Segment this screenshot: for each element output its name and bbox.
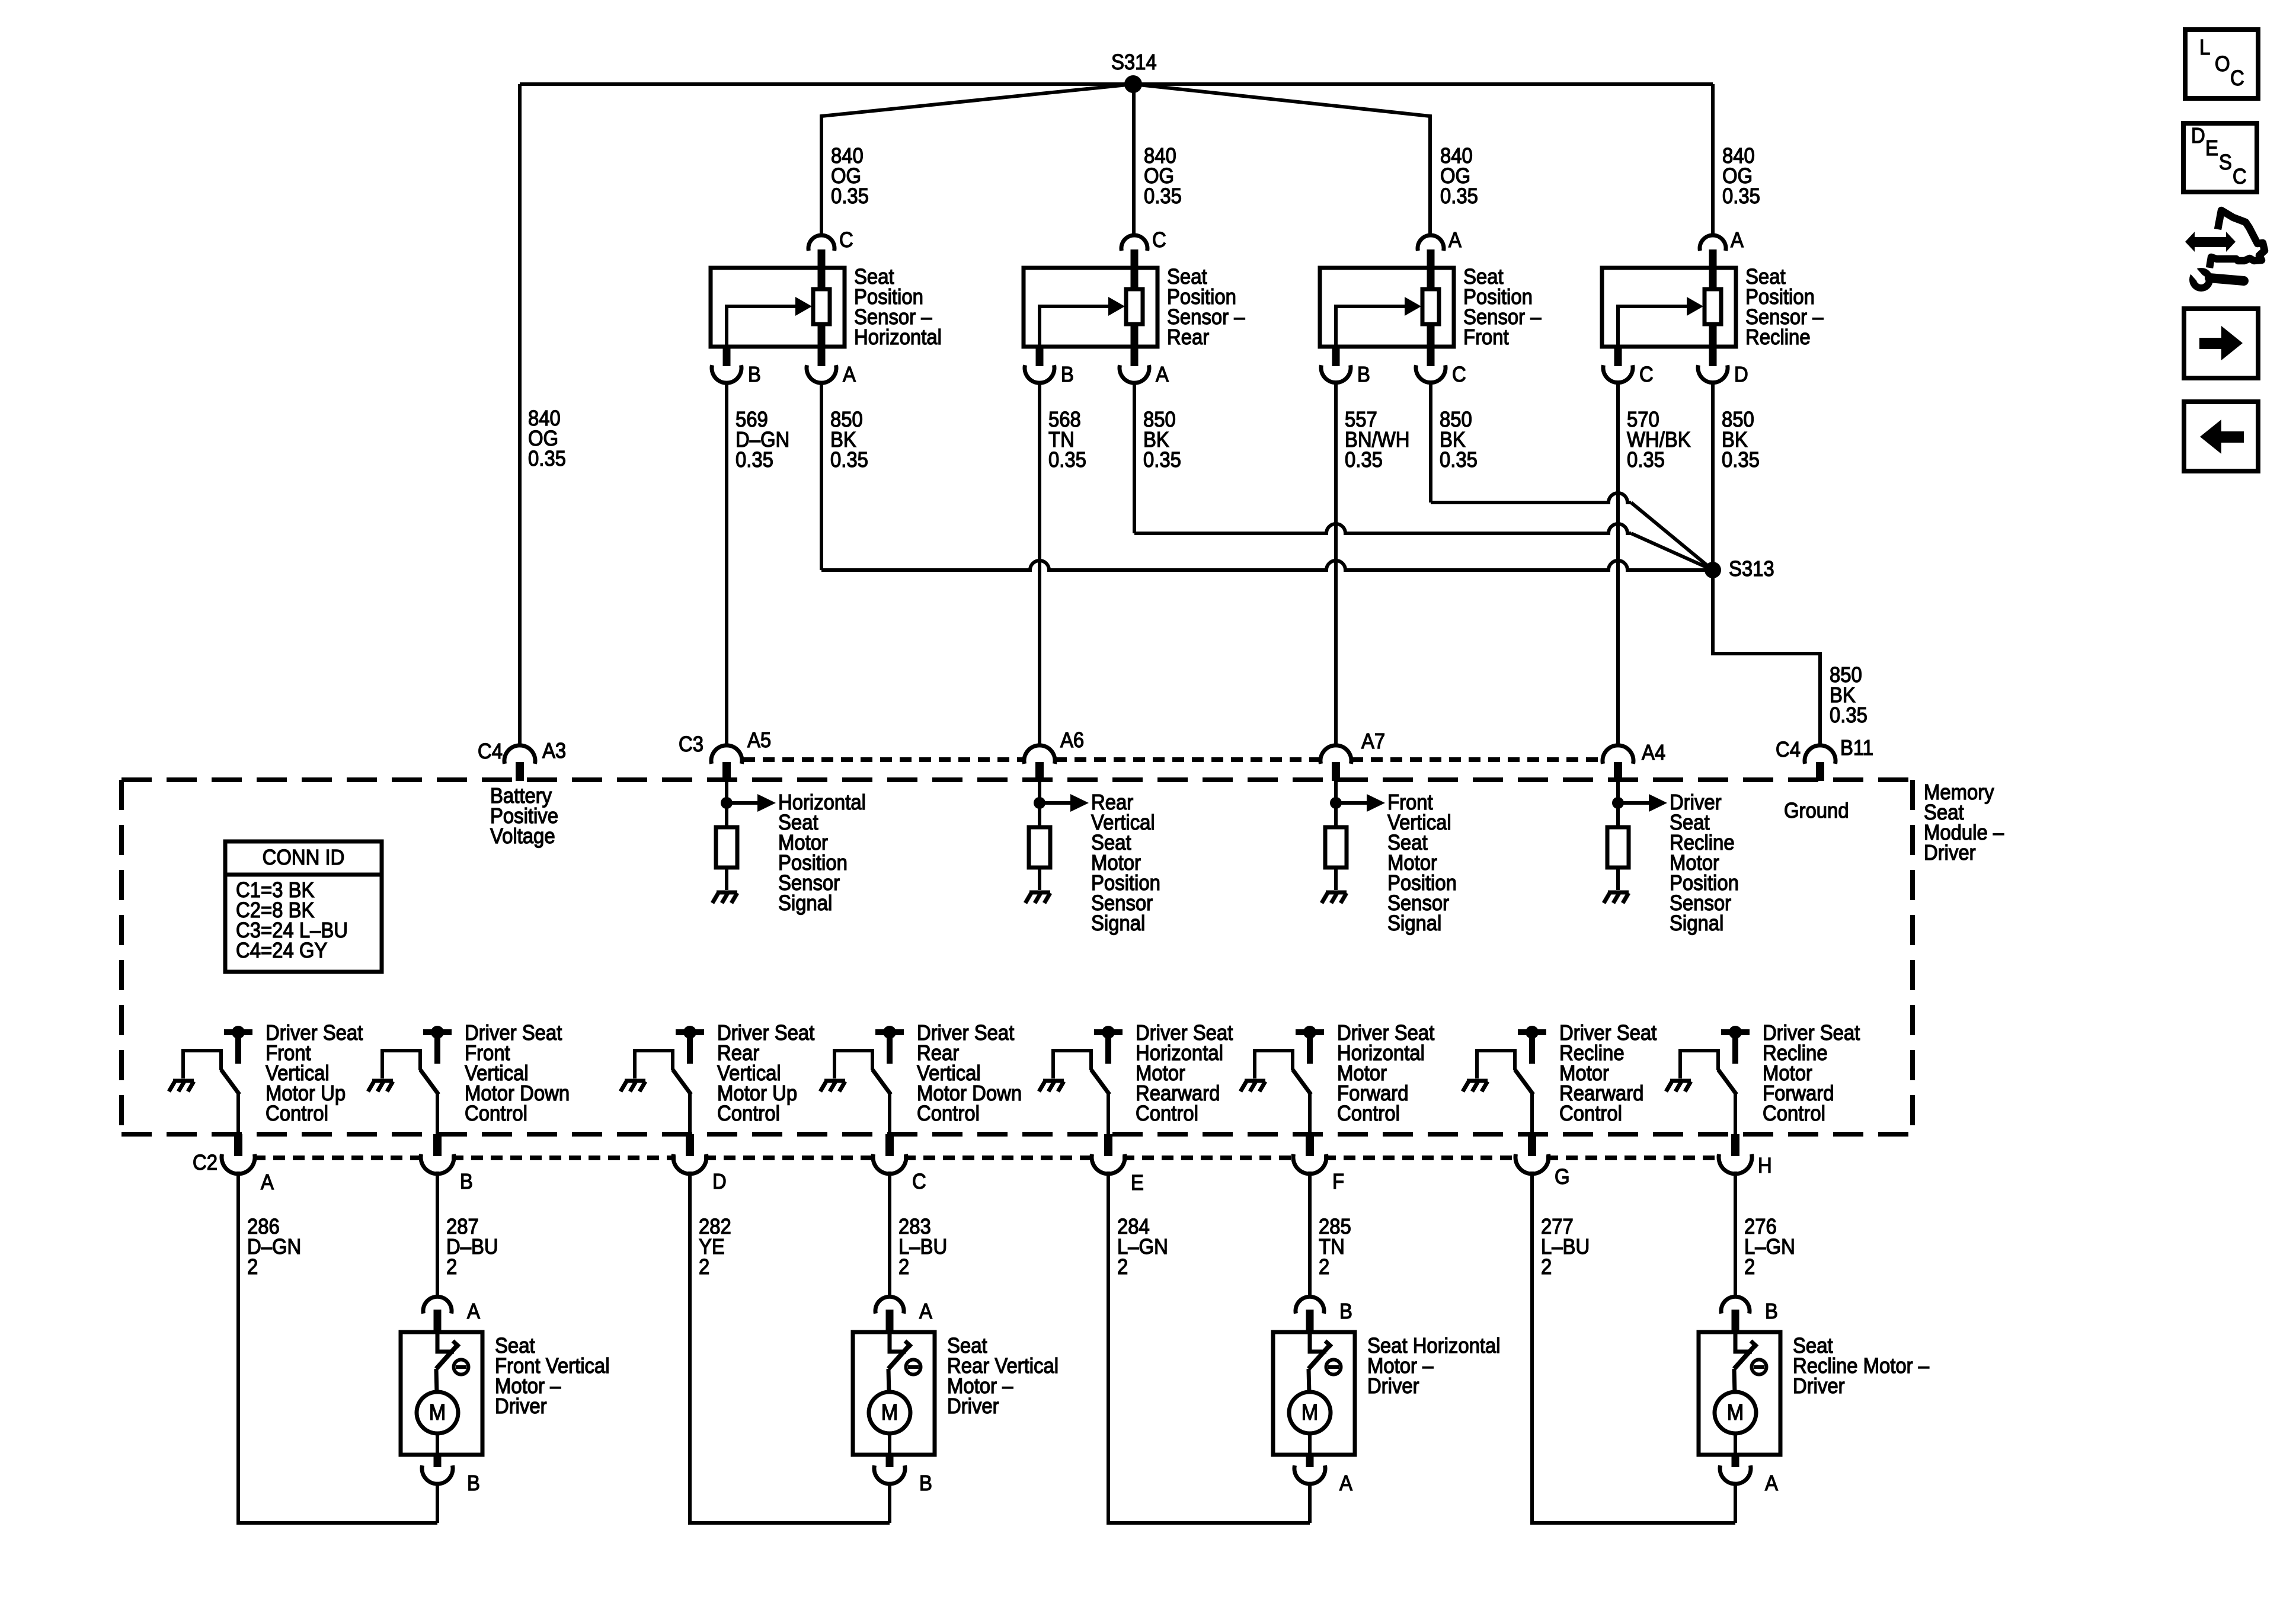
module connector pin B11 xyxy=(1776,735,1873,781)
switch blade xyxy=(1293,1070,1311,1094)
ground (switch) xyxy=(625,1079,645,1083)
wire label 569 D–GN (sensor 1 signal) xyxy=(736,407,789,472)
ground (module internal) xyxy=(1608,891,1629,895)
module input label at pin x=1226 xyxy=(778,790,866,915)
svg-text:Recline: Recline xyxy=(1745,325,1811,349)
svg-text:C3: C3 xyxy=(679,732,703,756)
ground (switch) xyxy=(173,1079,194,1083)
svg-text:2: 2 xyxy=(446,1254,457,1279)
module connector pin B (C2) xyxy=(421,1134,473,1193)
module connector pin D (C2) xyxy=(673,1134,727,1193)
wire label 570 WH/BK (sensor 4 signal) xyxy=(1627,407,1691,472)
connector pin C (sensor 4 bottom left) xyxy=(1603,347,1654,386)
svg-text:B: B xyxy=(748,362,761,386)
junction S313 xyxy=(1705,562,1721,578)
svg-text:Driver: Driver xyxy=(495,1394,547,1418)
svg-text:A: A xyxy=(919,1299,932,1323)
output driver switch (Forward Horizontal) xyxy=(1240,1026,1324,1134)
module connector pin A7 xyxy=(1320,729,1385,781)
switch blade xyxy=(221,1070,239,1094)
connector pin A (motor Seat top) xyxy=(875,1297,932,1332)
switch label xyxy=(717,1020,814,1125)
svg-text:B11: B11 xyxy=(1840,735,1873,760)
svg-text:A: A xyxy=(1731,228,1744,252)
node label S313 xyxy=(1729,556,1774,581)
wire label 840 OG 0.35 (sensor 4 feed) xyxy=(1722,143,1760,208)
svg-text:M: M xyxy=(881,1400,898,1425)
output driver switch (Motor Down Front) xyxy=(368,1026,452,1134)
module name label xyxy=(1924,780,2004,865)
svg-text:E: E xyxy=(2205,136,2218,160)
connector pin A (sensor 2 bottom right) xyxy=(1120,324,1169,386)
svg-text:Front: Front xyxy=(1463,325,1509,349)
module input network at pin x=2730 xyxy=(1604,781,1667,903)
wire label 840 OG 0.35 (sensor 2 feed) xyxy=(1144,143,1182,208)
CONN ID table xyxy=(225,841,382,972)
circuit breaker xyxy=(1735,1332,1752,1352)
module connector pin C (C2) xyxy=(873,1134,926,1193)
potentiometer (sensor 3) xyxy=(1422,289,1439,324)
svg-text:2: 2 xyxy=(1744,1254,1755,1279)
svg-text:B: B xyxy=(1765,1299,1778,1323)
wire: sensor 1 signal 569 down to module xyxy=(725,382,728,745)
wire label 840 OG 0.35 battery xyxy=(528,406,566,470)
svg-text:M: M xyxy=(1727,1400,1744,1425)
ground (switch) xyxy=(1245,1079,1265,1083)
junction dot xyxy=(1612,797,1624,809)
svg-text:2: 2 xyxy=(699,1254,709,1279)
connector pin B (motor Seat top) xyxy=(1721,1297,1778,1332)
svg-text:E: E xyxy=(1131,1170,1144,1195)
output driver switch (Rearward Horizontal) xyxy=(1039,1026,1123,1134)
wiper arrow (sensor 3) xyxy=(1336,306,1406,347)
junction dot xyxy=(721,797,733,809)
module connector pin A3 xyxy=(478,738,566,781)
connector pin B (sensor 1 bottom left) xyxy=(712,347,761,386)
svg-text:0.35: 0.35 xyxy=(1627,447,1665,472)
svg-text:F: F xyxy=(1332,1169,1344,1193)
wire label 557 BN/WH (sensor 3 signal) xyxy=(1345,407,1410,472)
wire label 284 L–GN 2 xyxy=(1117,1214,1168,1279)
connector pin C (sensor 3 bottom right) xyxy=(1416,324,1466,386)
wire label 277 L–BU 2 xyxy=(1541,1214,1590,1279)
wire label 850 BK 0.35 (sensor 3 ground) xyxy=(1440,407,1478,472)
connector pin B (sensor 3 bottom left) xyxy=(1321,347,1370,386)
motor box (Seat Horizontal Motor –) xyxy=(1273,1332,1355,1455)
module input label at pin x=2254 xyxy=(1387,790,1457,935)
icon box DESC xyxy=(2183,123,2257,192)
svg-text:2: 2 xyxy=(1541,1254,1552,1279)
wire: motor bottom pigtail xyxy=(1308,1483,1312,1523)
svg-text:C4=24 GY: C4=24 GY xyxy=(236,938,327,962)
wire label 850 BK 0.35 (sensor 2 ground) xyxy=(1143,407,1181,472)
wire: pin x=1501 down to motor xyxy=(888,1172,891,1296)
svg-text:0.35: 0.35 xyxy=(1830,703,1868,727)
memory seat module dashed outline xyxy=(121,780,1913,1134)
connector pin B (motor bottom) xyxy=(422,1455,480,1495)
svg-text:Signal: Signal xyxy=(1091,911,1145,935)
signal arrow xyxy=(1040,801,1073,805)
svg-text:B: B xyxy=(467,1471,480,1495)
wiper arrow (sensor 1) xyxy=(727,306,797,347)
wire: S314 diagonal to sensor 1 (Horizontal) pin C xyxy=(821,84,1133,235)
svg-text:Signal: Signal xyxy=(778,891,832,915)
svg-text:Driver: Driver xyxy=(1367,1374,1419,1398)
wire label 287 D–BU 2 xyxy=(446,1214,498,1279)
svg-text:S313: S313 xyxy=(1729,556,1774,581)
circuit breaker xyxy=(1310,1332,1326,1352)
connector label C2 xyxy=(193,1150,218,1174)
ground (switch) xyxy=(1467,1079,1488,1083)
svg-text:C: C xyxy=(1452,362,1466,386)
connector pin A (sensor 3 top) xyxy=(1418,228,1462,289)
svg-text:C: C xyxy=(2230,66,2244,90)
switch label xyxy=(1559,1020,1657,1125)
svg-text:2: 2 xyxy=(1117,1254,1128,1279)
switch label xyxy=(465,1020,570,1125)
svg-text:C4: C4 xyxy=(478,739,503,763)
svg-text:D: D xyxy=(712,1169,727,1193)
svg-text:B: B xyxy=(1339,1299,1352,1323)
ground (switch) xyxy=(824,1079,845,1083)
wire label 850 BK 0.35 (sensor 1 ground) xyxy=(830,407,868,472)
junction dot xyxy=(1330,797,1342,809)
junction S314 xyxy=(1124,75,1142,93)
potentiometer (sensor 4) xyxy=(1705,289,1721,324)
svg-text:Control: Control xyxy=(1337,1101,1400,1125)
wire label 283 L–BU 2 xyxy=(898,1214,947,1279)
connector pin A (sensor 1 bottom right) xyxy=(807,324,856,386)
svg-text:Signal: Signal xyxy=(1670,911,1723,935)
svg-text:0.35: 0.35 xyxy=(1144,184,1182,208)
wire label 840 OG 0.35 (sensor 1 feed) xyxy=(831,143,869,208)
svg-text:Control: Control xyxy=(717,1101,780,1125)
switch blade xyxy=(420,1070,439,1094)
connector pin A (motor bottom) xyxy=(1720,1455,1778,1495)
motor M circle xyxy=(417,1392,458,1433)
wire: motor bottom pigtail xyxy=(1734,1483,1737,1523)
svg-text:C: C xyxy=(1152,228,1166,252)
ground (switch) xyxy=(1670,1079,1691,1083)
circuit breaker xyxy=(890,1332,906,1352)
wire label 850 BK 0.35 (sensor 4 ground) xyxy=(1722,407,1760,472)
connector pin D (sensor 4 bottom right) xyxy=(1698,324,1748,386)
switch label xyxy=(1136,1020,1233,1125)
ground (switch) xyxy=(372,1079,393,1083)
module input network at pin x=1754 xyxy=(1025,781,1089,903)
sensor 1 name label xyxy=(854,264,942,349)
resistor xyxy=(1325,827,1347,868)
wire: pin x=738 down to motor xyxy=(436,1172,439,1296)
svg-text:A: A xyxy=(1156,362,1169,386)
svg-text:0.35: 0.35 xyxy=(1048,447,1086,472)
svg-text:A: A xyxy=(843,362,856,386)
switch blade xyxy=(1718,1070,1737,1094)
module connector pin A5 xyxy=(679,728,771,781)
wire: sensor 1 ground 850 BK run to S313 xyxy=(820,382,823,570)
svg-text:0.35: 0.35 xyxy=(1440,184,1478,208)
svg-text:A4: A4 xyxy=(1642,740,1665,764)
connector pin C (sensor 2 top) xyxy=(1121,228,1166,289)
svg-text:Control: Control xyxy=(1136,1101,1198,1125)
motor M circle xyxy=(869,1392,910,1433)
wire: S314 diagonal to sensor 3 (Front) pin A xyxy=(1133,84,1430,235)
ground (module internal) xyxy=(1029,891,1050,895)
ground (module internal) xyxy=(717,891,737,895)
ground (switch) xyxy=(1043,1079,1064,1083)
svg-text:A3: A3 xyxy=(542,738,566,763)
svg-text:S: S xyxy=(2219,150,2232,174)
svg-text:B: B xyxy=(460,1169,473,1193)
svg-text:M: M xyxy=(429,1400,446,1425)
switch blade xyxy=(1091,1070,1109,1094)
module input label at pin x=2730 xyxy=(1670,790,1739,935)
wire: pin x=1870 loop to motor bottom x=2210 xyxy=(1108,1172,1310,1523)
module connector pin A4 xyxy=(1603,740,1665,781)
wire: top 840 OG bus from battery drop to recline sensor drop xyxy=(520,82,1713,86)
svg-text:0.35: 0.35 xyxy=(1345,447,1383,472)
wire: sensor 2 signal 568 down to module xyxy=(1038,382,1041,745)
connector pin C (sensor 1 top) xyxy=(808,228,853,289)
svg-text:Control: Control xyxy=(1763,1101,1825,1125)
output driver switch (Motor Up Rear) xyxy=(621,1026,704,1134)
connector pin B (sensor 2 bottom left) xyxy=(1025,347,1074,386)
wire: pin x=1164 loop to motor bottom x=1501 xyxy=(690,1172,890,1523)
motor M circle xyxy=(1289,1392,1331,1433)
svg-text:B: B xyxy=(919,1471,932,1495)
svg-text:A: A xyxy=(1339,1471,1352,1495)
svg-text:Voltage: Voltage xyxy=(490,824,555,848)
icon: vehicle with double arrow and wrench xyxy=(2185,210,2265,288)
svg-text:CONN ID: CONN ID xyxy=(263,845,345,869)
svg-text:Control: Control xyxy=(266,1101,328,1125)
wiper arrow (sensor 2) xyxy=(1040,306,1109,347)
module connector pin E (C2) xyxy=(1092,1134,1144,1195)
motor box (Seat Recline Motor –) xyxy=(1699,1332,1780,1455)
wire: sensor 4 signal 570 down to module xyxy=(1616,382,1620,745)
module connector pin F (C2) xyxy=(1293,1134,1344,1193)
motor box (Seat Front Vertical Motor –) xyxy=(401,1332,482,1455)
wire: sensor 2 ground 850 BK run to S313 xyxy=(1133,382,1136,533)
svg-text:A: A xyxy=(261,1170,274,1194)
switch label xyxy=(1763,1020,1860,1125)
seat position sensor 1 (Horizontal) box xyxy=(711,268,845,347)
svg-text:0.35: 0.35 xyxy=(1722,447,1760,472)
wire label 282 YE 2 xyxy=(699,1214,731,1279)
wire label 840 OG 0.35 (sensor 3 feed) xyxy=(1440,143,1478,208)
wire: sensor 4 ground 850 BK down through S313 to module pin B11 xyxy=(1713,382,1820,745)
svg-text:A: A xyxy=(1765,1471,1778,1495)
label Battery Positive Voltage xyxy=(490,783,558,848)
svg-text:Ground: Ground xyxy=(1784,798,1849,822)
sensor 2 name label xyxy=(1167,264,1245,349)
wire label 285 TN 2 xyxy=(1319,1214,1351,1279)
module input network at pin x=1226 xyxy=(712,781,776,903)
svg-text:Control: Control xyxy=(917,1101,980,1125)
svg-text:2: 2 xyxy=(1319,1254,1329,1279)
icon box LOC xyxy=(2185,30,2258,98)
wiper arrow (sensor 4) xyxy=(1618,306,1688,347)
svg-text:C: C xyxy=(839,228,853,252)
svg-text:D: D xyxy=(2191,123,2205,148)
icon box left arrow xyxy=(2184,402,2258,471)
switch label xyxy=(1337,1020,1434,1125)
node label S314 xyxy=(1111,50,1157,74)
label Ground xyxy=(1784,798,1849,822)
wire: S314 straight down to sensor 2 (Rear) pin C xyxy=(1132,84,1136,235)
wire: pin x=2928 down to motor xyxy=(1734,1172,1737,1296)
svg-text:0.35: 0.35 xyxy=(736,447,773,472)
motor M circle xyxy=(1715,1392,1756,1433)
resistor xyxy=(1607,827,1629,868)
connector C2 dotted line (bottom pin row) xyxy=(254,1156,423,1160)
svg-text:Control: Control xyxy=(1559,1101,1622,1125)
svg-text:0.35: 0.35 xyxy=(831,184,869,208)
motor box (Seat Rear Vertical Motor –) xyxy=(853,1332,935,1455)
motor name label xyxy=(947,1333,1059,1418)
svg-text:Horizontal: Horizontal xyxy=(854,325,942,349)
svg-text:0.35: 0.35 xyxy=(1143,447,1181,472)
svg-text:0.35: 0.35 xyxy=(1440,447,1478,472)
sensor 3 name label xyxy=(1463,264,1542,349)
svg-text:D: D xyxy=(1734,362,1748,386)
svg-text:M: M xyxy=(1302,1400,1319,1425)
wire: pin x=2210 down to motor xyxy=(1308,1172,1312,1296)
sensor 4 name label xyxy=(1745,264,1824,349)
signal arrow xyxy=(1618,801,1651,805)
wire: pin x=2585 loop to motor bottom x=2928 xyxy=(1532,1172,1735,1523)
svg-text:0.35: 0.35 xyxy=(830,447,868,472)
motor name label xyxy=(1367,1333,1501,1398)
wire label 850 BK 0.35 module ground xyxy=(1830,662,1868,727)
svg-text:Driver: Driver xyxy=(1924,840,1976,865)
module connector pin A6 xyxy=(1024,728,1084,781)
wire: bus corner down to sensor 4 (Recline) pin A xyxy=(1711,84,1715,235)
svg-text:Rear: Rear xyxy=(1167,325,1209,349)
output driver switch (Forward Recline) xyxy=(1666,1026,1750,1134)
svg-text:Signal: Signal xyxy=(1387,911,1441,935)
svg-text:G: G xyxy=(1555,1164,1570,1189)
seat position sensor 3 (Front) box xyxy=(1320,268,1454,347)
svg-text:0.35: 0.35 xyxy=(1722,184,1760,208)
module connector pin H (C2) xyxy=(1719,1134,1772,1177)
output driver switch (Rearward Recline) xyxy=(1463,1026,1546,1134)
svg-text:B: B xyxy=(1061,362,1074,386)
circuit breaker xyxy=(437,1332,454,1352)
svg-text:C2: C2 xyxy=(193,1150,218,1174)
svg-text:A: A xyxy=(1448,228,1462,252)
svg-text:Driver: Driver xyxy=(947,1394,999,1418)
wire: battery feed 840 OG down to module pin A3 xyxy=(518,84,522,745)
ground (module internal) xyxy=(1326,891,1347,895)
resistor xyxy=(716,827,737,868)
junction dot xyxy=(1034,797,1045,809)
svg-text:L: L xyxy=(2199,35,2210,59)
signal arrow xyxy=(727,801,760,805)
output driver switch (Motor Down Rear) xyxy=(820,1026,904,1134)
svg-text:Control: Control xyxy=(465,1101,527,1125)
connector pin A (motor Seat top) xyxy=(423,1297,480,1332)
connector pin B (motor Seat Horizontal top) xyxy=(1296,1297,1352,1332)
output driver switch (Motor Up Front) xyxy=(169,1026,252,1134)
wire: motor bottom pigtail xyxy=(436,1483,439,1523)
switch label xyxy=(917,1020,1022,1125)
svg-text:H: H xyxy=(1758,1153,1772,1177)
svg-text:Driver: Driver xyxy=(1793,1374,1845,1398)
switch label xyxy=(266,1020,363,1125)
svg-text:C4: C4 xyxy=(1776,737,1801,761)
potentiometer (sensor 1) xyxy=(813,289,830,324)
switch blade xyxy=(1515,1070,1533,1094)
icon box right arrow xyxy=(2184,309,2258,378)
seat position sensor 2 (Rear) box xyxy=(1024,268,1157,347)
svg-text:A6: A6 xyxy=(1060,728,1084,752)
svg-text:2: 2 xyxy=(247,1254,258,1279)
wire: pin x=402 loop to motor bottom x=738 xyxy=(238,1172,437,1523)
wire label 568 TN (sensor 2 signal) xyxy=(1048,407,1086,472)
module input label at pin x=1754 xyxy=(1091,790,1160,935)
svg-text:A7: A7 xyxy=(1361,729,1385,753)
motor name label xyxy=(495,1333,610,1418)
svg-text:0.35: 0.35 xyxy=(528,446,566,470)
connector pin A (motor bottom) xyxy=(1294,1455,1352,1495)
wire: sensor 3 ground 850 BK run to S313 xyxy=(1429,382,1432,502)
svg-text:2: 2 xyxy=(898,1254,909,1279)
svg-text:A5: A5 xyxy=(747,728,771,752)
wire label 276 L–GN 2 xyxy=(1744,1214,1795,1279)
wire: motor bottom pigtail xyxy=(888,1483,891,1523)
motor name label xyxy=(1793,1333,1930,1398)
seat position sensor 4 (Recline) box xyxy=(1602,268,1736,347)
svg-text:B: B xyxy=(1357,362,1370,386)
connector pin B (motor bottom) xyxy=(874,1455,932,1495)
switch blade xyxy=(872,1070,891,1094)
connector C3/C4 dotted line (top pin row) xyxy=(743,757,1024,762)
svg-text:S314: S314 xyxy=(1111,50,1157,74)
svg-text:A: A xyxy=(467,1299,480,1323)
wire: sensor 3 signal 557 down to module xyxy=(1334,382,1338,745)
signal arrow xyxy=(1336,801,1369,805)
potentiometer (sensor 2) xyxy=(1126,289,1143,324)
wire label 286 D–GN 2 xyxy=(247,1214,301,1279)
module connector pin G (C2) xyxy=(1515,1134,1570,1189)
svg-text:C: C xyxy=(912,1169,926,1193)
svg-text:C: C xyxy=(2233,164,2247,188)
svg-text:C: C xyxy=(1639,362,1654,386)
svg-text:O: O xyxy=(2215,52,2230,76)
module connector pin A (C2) xyxy=(222,1134,274,1194)
connector pin A (sensor 4 top) xyxy=(1700,228,1744,289)
module input network at pin x=2254 xyxy=(1322,781,1385,903)
resistor xyxy=(1029,827,1050,868)
switch blade xyxy=(673,1070,691,1094)
